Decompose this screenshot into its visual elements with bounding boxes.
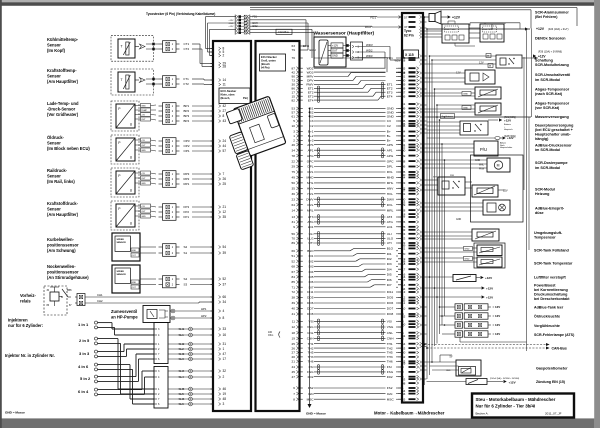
svg-text:48: 48 <box>223 397 227 401</box>
svg-text:im SCR-Modul: im SCR-Modul <box>535 166 560 170</box>
wire DO6 <box>314 302 386 304</box>
lamp SCR-Fehlerlampe (ATS) <box>455 331 463 337</box>
svg-text:SL3: SL3 <box>179 357 185 361</box>
svg-text:DWV: DWV <box>387 197 395 201</box>
svg-text:12V: 12V <box>503 188 508 192</box>
wire PowerBoost 12V 1 <box>427 287 482 289</box>
wire WD3| <box>314 71 386 73</box>
svg-text:2: 2 <box>223 375 225 379</box>
svg-text:SCR-Tank Füllstand: SCR-Tank Füllstand <box>534 248 570 252</box>
svg-text:20: 20 <box>292 355 296 359</box>
svg-text:+12V: +12V <box>536 27 545 31</box>
svg-text:SENSOR: SENSOR <box>117 242 127 244</box>
wire SL3 to pin 17 <box>168 358 213 360</box>
wire TH2 <box>314 347 386 349</box>
svg-text:17: 17 <box>223 357 227 361</box>
wires S2 S1 to pins 54 39 <box>190 246 213 248</box>
wire MRV| <box>314 76 348 78</box>
CAN-Bus wires <box>425 344 547 346</box>
wire IGN <box>314 393 386 395</box>
svg-text:Wassersensor (Hauptfilter): Wassersensor (Hauptfilter) <box>314 30 375 36</box>
svg-text:Kühlmitteltemp-: Kühlmitteltemp- <box>47 37 79 42</box>
wire DO7 <box>314 308 386 310</box>
svg-text:C2: C2 <box>310 124 314 128</box>
svg-text:SCR-Tank Temperatur: SCR-Tank Temperatur <box>534 261 573 265</box>
svg-text:GND: GND <box>141 150 146 152</box>
svg-text:Lade-Temp- und: Lade-Temp- und <box>47 101 79 106</box>
wires FP to pins 21 12 35 <box>192 206 213 208</box>
svg-text:DPL: DPL <box>307 165 313 169</box>
svg-text:S2: S2 <box>184 245 188 249</box>
svg-text:SCR-Dosierpumpe: SCR-Dosierpumpe <box>535 161 568 165</box>
sensor Umgebungsluft-Temp <box>472 229 499 241</box>
svg-text:(Bei Fehlern): (Bei Fehlern) <box>535 15 558 19</box>
svg-text:37: 37 <box>402 189 406 193</box>
svg-text:FP1: FP1 <box>184 215 190 219</box>
svg-text:85: 85 <box>292 280 296 284</box>
svg-text:FD2: FD2 <box>387 375 393 379</box>
connector WD <box>351 42 363 60</box>
ECU connector large box <box>256 41 300 411</box>
svg-text:1: 1 <box>293 134 295 138</box>
svg-text:an HP-Pumpe: an HP-Pumpe <box>111 315 138 320</box>
svg-text:51: 51 <box>402 102 406 106</box>
connector BP <box>163 103 177 125</box>
svg-text:+12V: +12V <box>504 118 511 122</box>
wire DI4 <box>314 271 362 273</box>
svg-text:ECU-Stecker: ECU-Stecker <box>221 89 237 93</box>
svg-text:AP1: AP1 <box>387 148 393 152</box>
svg-text:(Vor Gridheater): (Vor Gridheater) <box>47 112 79 117</box>
svg-text:AP1: AP1 <box>308 148 314 152</box>
svg-text:35: 35 <box>223 215 227 219</box>
svg-text:DI3: DI3 <box>387 262 392 266</box>
svg-text:Ohm: Ohm <box>268 334 273 337</box>
svg-text:48: 48 <box>402 381 406 385</box>
svg-text:(5V5xF [5A] + 3V/9N4 + 3V/9N4): (5V5xF [5A] + 3V/9N4 + 3V/9N4) <box>490 377 519 380</box>
svg-text:(Im Rail, links): (Im Rail, links) <box>47 179 75 184</box>
svg-text:BP4: BP4 <box>184 119 190 123</box>
wire SL1 to pin 16 <box>168 334 213 336</box>
svg-text:B1O: B1O <box>387 247 394 251</box>
svg-text:MRL: MRL <box>307 208 314 212</box>
svg-text:Zündung EIN (15): Zündung EIN (15) <box>536 380 565 384</box>
svg-text:5 in 2: 5 in 2 <box>80 376 91 381</box>
svg-text:CH1: CH1 <box>97 293 103 297</box>
svg-text:nur für 6 Zylinder:: nur für 6 Zylinder: <box>8 323 43 328</box>
wire LD1 <box>314 226 386 228</box>
svg-text:7: 7 <box>223 172 225 176</box>
svg-text:42: 42 <box>223 104 227 108</box>
wire SH4 to pin 32 <box>168 370 213 372</box>
svg-text:11: 11 <box>223 83 227 87</box>
svg-text:8: 8 <box>223 114 225 118</box>
svg-text:3 in 3: 3 in 3 <box>79 351 90 356</box>
lamp Vorglühleuchte <box>455 322 463 328</box>
svg-text:APS: APS <box>307 143 313 147</box>
wire 12V rail F24 <box>427 28 530 30</box>
svg-text:OP2: OP2 <box>184 144 190 148</box>
svg-text:DI6: DI6 <box>387 278 392 282</box>
switch Luftfilter verstopft <box>453 275 476 282</box>
svg-text:SL6: SL6 <box>179 402 185 406</box>
NOx sensor box 2 <box>480 24 504 42</box>
svg-text:SL5: SL5 <box>179 392 185 396</box>
wire injector 5 in 2 high <box>98 376 137 378</box>
svg-text:DVL: DVL <box>307 203 313 207</box>
svg-text:HVL: HVL <box>307 192 313 196</box>
svg-text:AdBlue-Drucksensor: AdBlue-Drucksensor <box>535 143 572 147</box>
wire RWV| <box>314 83 358 85</box>
svg-text:66: 66 <box>292 249 296 253</box>
sensor AdBlue-Druck P/U <box>474 141 498 156</box>
svg-text:(Am Hauptfilter): (Am Hauptfilter) <box>47 79 79 84</box>
svg-text:HNV: HNV <box>307 187 314 191</box>
svg-text:PKW: PKW <box>479 168 485 170</box>
wire DWV <box>314 198 386 200</box>
wire injector 4 in 6 low <box>98 368 133 370</box>
svg-text:53T: 53T <box>433 177 437 179</box>
svg-text:DO8: DO8 <box>307 312 314 316</box>
svg-text:FSG: FSG <box>387 370 394 374</box>
svg-text:T: T <box>121 45 123 49</box>
svg-text:CNH: CNH <box>387 337 394 341</box>
junction dots right bundle <box>424 16 426 18</box>
wire injector 6 in 4 high <box>98 389 143 391</box>
svg-text:Vorglühleuchte: Vorglühleuchte <box>534 324 560 328</box>
svg-text:42: 42 <box>292 70 296 74</box>
svg-text:TH3: TH3 <box>387 355 393 359</box>
wire MHL <box>314 182 386 184</box>
svg-text:WDV: WDV <box>366 43 373 47</box>
svg-text:34: 34 <box>292 148 296 152</box>
svg-text:B+: B+ <box>387 130 391 134</box>
svg-text:66: 66 <box>223 295 227 299</box>
svg-text:32: 32 <box>223 369 227 373</box>
svg-text:MSC: MSC <box>387 397 395 401</box>
svg-text:OUT: OUT <box>141 145 146 147</box>
svg-text:TH1: TH1 <box>387 342 393 346</box>
svg-text:9: 9 <box>293 225 295 229</box>
svg-text:UTI: UTI <box>387 241 392 245</box>
relay SCR-Modul Heizung <box>438 177 465 195</box>
svg-text:SCR-Fehlerlampe (ATS): SCR-Fehlerlampe (ATS) <box>534 333 575 337</box>
svg-text:RVL: RVL <box>387 170 393 174</box>
enclosure SCR-Tank sensors <box>474 243 505 268</box>
svg-text:= 12V: = 12V <box>493 323 501 327</box>
svg-text:MHD: MHD <box>387 176 395 180</box>
svg-text:Steu - Motorkabelbaum - Mähdre: Steu - Motorkabelbaum - Mähdrescher <box>476 397 556 402</box>
svg-text:ATG: ATG <box>387 220 394 224</box>
svg-text:TH5: TH5 <box>308 351 314 355</box>
wire top rail 1 <box>250 7 577 9</box>
wire DO8 <box>314 313 386 315</box>
svg-text:DI1: DI1 <box>387 252 392 256</box>
svg-text:Hauptsch.: Hauptsch. <box>504 128 513 131</box>
svg-text:BP1: BP1 <box>184 104 190 108</box>
svg-text:SCR-Alarmsummer: SCR-Alarmsummer <box>535 11 569 15</box>
connector X tyco 6pin <box>234 15 236 35</box>
svg-text:21: 21 <box>292 360 296 364</box>
wire PD1 row <box>314 57 386 59</box>
svg-text:TH1: TH1 <box>308 342 314 346</box>
svg-text:55: 55 <box>402 299 406 303</box>
wire B+3|B+ <box>314 139 386 141</box>
wire injector 1 in 1 low <box>98 326 115 328</box>
svg-text:Dauerplusversorgung: Dauerplusversorgung <box>535 123 573 127</box>
wire FT1 to pin 14 <box>192 78 204 80</box>
heater resistor SCR-Modul <box>472 185 498 197</box>
wire HVL <box>314 193 386 195</box>
svg-text:47: 47 <box>223 352 227 356</box>
wire FT2 to pin 11 <box>192 83 204 85</box>
svg-text:LD1: LD1 <box>387 225 393 229</box>
wires S4 S3 to pins 52 37 <box>190 278 213 280</box>
wire PowerBoost 12V 2 <box>427 296 482 298</box>
svg-text:C2: C2 <box>387 124 391 128</box>
svg-text:Tycostecker (6 Pin) (Verbindun: Tycostecker (6 Pin) (Verbindung Kabelbäu… <box>146 12 215 16</box>
svg-text:DI2: DI2 <box>387 257 392 261</box>
svg-text:Luftfilter verstopft: Luftfilter verstopft <box>534 275 567 279</box>
wire HP2 to pin 8 <box>174 317 213 319</box>
wire C3 <box>314 120 386 122</box>
svg-text:SH2: SH2 <box>179 342 185 346</box>
svg-text:24: 24 <box>223 139 227 143</box>
svg-text:SL1: SL1 <box>179 333 185 337</box>
svg-text:21: 21 <box>223 205 227 209</box>
svg-text:2011_07_JF: 2011_07_JF <box>545 412 562 416</box>
svg-text:PowerBoost: PowerBoost <box>534 283 556 287</box>
svg-text:= 12V: = 12V <box>493 332 501 336</box>
wire DI2 <box>314 260 356 262</box>
svg-text:72: 72 <box>292 290 296 294</box>
svg-text:Becher A.: Becher A. <box>476 412 489 416</box>
svg-text:TH2: TH2 <box>308 346 314 350</box>
svg-text:AdBlue-Tank leer: AdBlue-Tank leer <box>534 305 564 309</box>
svg-text:56: 56 <box>292 232 296 236</box>
svg-text:VSG: VSG <box>387 325 394 329</box>
svg-text:50: 50 <box>402 173 406 177</box>
svg-text:ECU-Stecker: ECU-Stecker <box>261 55 277 59</box>
svg-text:5V: 5V <box>450 356 453 359</box>
svg-text:P/U: P/U <box>480 147 487 152</box>
svg-text:64: 64 <box>292 203 296 207</box>
svg-text:SCR-Umschaltventil: SCR-Umschaltventil <box>535 73 570 77</box>
svg-text:VSG: VSG <box>307 325 314 329</box>
svg-text:SH6: SH6 <box>179 397 185 401</box>
svg-text:(Im Block neben ECU): (Im Block neben ECU) <box>47 146 90 151</box>
connector CH <box>77 294 85 306</box>
sensor SCR-Tank Fuellstand <box>477 245 502 256</box>
wire top rail 2 <box>250 9 531 11</box>
svg-text:X 115: X 115 <box>405 53 414 57</box>
svg-text:düse: düse <box>535 211 544 215</box>
wire B1O <box>314 250 350 252</box>
svg-text:(Bosch,: (Bosch, <box>221 96 231 100</box>
svg-text:39: 39 <box>292 301 296 305</box>
connector FP <box>163 204 177 221</box>
svg-text:75: 75 <box>292 170 296 174</box>
wire WD3 drop <box>363 57 388 59</box>
wire ATG <box>314 221 386 223</box>
svg-text:TH6: TH6 <box>308 360 314 364</box>
svg-text:36: 36 <box>292 192 296 196</box>
wire 12V right rail down <box>526 29 528 351</box>
svg-text:8: 8 <box>293 397 295 401</box>
svg-text:ECH: ECH <box>310 48 316 52</box>
svg-text:RVL: RVL <box>308 170 314 174</box>
svg-text:(F24 (10A) + R+T): (F24 (10A) + R+T) <box>548 28 569 31</box>
svg-text:Aux Antenne: Aux Antenne <box>442 115 454 118</box>
svg-text:= 12V: = 12V <box>493 314 501 318</box>
svg-text:MHL: MHL <box>307 181 314 185</box>
svg-text:bei Kornentleerung: bei Kornentleerung <box>534 288 568 292</box>
svg-text:HVL: HVL <box>387 192 393 196</box>
svg-text:59: 59 <box>402 244 406 248</box>
svg-text:GND: GND <box>465 259 470 261</box>
wire RVL <box>314 171 386 173</box>
svg-text:23: 23 <box>292 197 296 201</box>
svg-text:62 Pin: 62 Pin <box>404 34 414 38</box>
wire F28 12V row <box>427 137 496 139</box>
svg-text:DI11: DI11 <box>387 290 394 294</box>
svg-text:FD1: FD1 <box>370 15 376 19</box>
svg-text:57: 57 <box>223 149 227 153</box>
svg-text:45: 45 <box>292 370 296 374</box>
wire DO2 to X115 pin 37 <box>250 25 372 27</box>
svg-text:S3: S3 <box>184 283 188 287</box>
svg-text:C3: C3 <box>310 119 314 123</box>
svg-text:19: 19 <box>292 337 296 341</box>
wire top connector to ECU pin 8 <box>206 16 237 18</box>
svg-text:28: 28 <box>223 65 227 69</box>
svg-text:HP1: HP1 <box>201 307 207 311</box>
svg-text:3: 3 <box>293 130 295 134</box>
wire SL4 to pin 2 <box>168 376 213 378</box>
wire injector 2 in 5 high <box>98 338 119 340</box>
relay Dauerplusversorgung <box>460 121 488 135</box>
svg-text:44: 44 <box>223 144 227 148</box>
svg-text:31: 31 <box>292 220 296 224</box>
wire injector 6 in 4 low <box>98 393 145 395</box>
wire ET1 <box>314 87 363 89</box>
svg-text:70: 70 <box>292 237 296 241</box>
svg-text:6: 6 <box>293 386 295 390</box>
svg-text:AT3: AT3 <box>308 215 314 219</box>
wire SH2 to pin 31 <box>168 343 213 345</box>
svg-text:FS2: FS2 <box>308 386 314 390</box>
wires NOx boxes <box>427 30 443 32</box>
svg-text:54: 54 <box>223 245 227 249</box>
svg-text:Sensor: Sensor <box>47 43 61 48</box>
svg-text:Sensor: Sensor <box>47 207 61 212</box>
svg-text:DPL: DPL <box>387 165 393 169</box>
wire OPC <box>314 160 386 162</box>
svg-text:8: 8 <box>223 316 225 320</box>
svg-text:GND = Masse: GND = Masse <box>306 411 326 415</box>
wire DVL <box>314 204 386 206</box>
relay Schaltung SCR-Modulheizung <box>496 55 522 68</box>
svg-text:B1O: B1O <box>307 249 314 253</box>
NOx sensor box 1 <box>442 24 469 43</box>
svg-text:(F26 (10A) + 3V/9N6): (F26 (10A) + 3V/9N6) <box>538 51 562 54</box>
svg-text:LD1: LD1 <box>308 225 314 229</box>
svg-text:SL2: SL2 <box>179 347 185 351</box>
svg-text:RP3: RP3 <box>184 172 190 176</box>
big SCR-Modul enclosure <box>471 155 524 222</box>
svg-text:12: 12 <box>223 210 227 214</box>
svg-text:TH3: TH3 <box>308 355 314 359</box>
svg-text:Öldruckleuchte: Öldruckleuchte <box>534 314 560 319</box>
wire FD2 <box>314 376 386 378</box>
svg-text:BP2: BP2 <box>184 109 190 113</box>
svg-text:(Im Kopf): (Im Kopf) <box>47 48 66 53</box>
svg-text:Sensor: Sensor <box>47 141 61 146</box>
svg-text:31: 31 <box>223 342 227 346</box>
svg-text:APG: APG <box>387 154 394 158</box>
svg-text:38: 38 <box>292 296 296 300</box>
svg-text:relais: relais <box>20 299 31 304</box>
svg-text:SH3: SH3 <box>179 352 185 356</box>
svg-text:1: 1 <box>223 347 225 351</box>
svg-text:Zumessventil: Zumessventil <box>111 309 137 314</box>
svg-text:TEMP: TEMP <box>141 110 147 112</box>
svg-text:35: 35 <box>292 187 296 191</box>
svg-text:78: 78 <box>292 154 296 158</box>
svg-text:+12V: +12V <box>486 295 493 299</box>
wire WDV to X115 pin 28 <box>363 46 391 48</box>
svg-text:47: 47 <box>292 375 296 379</box>
svg-text:hängig): hängig) <box>535 137 549 141</box>
svg-text:1 in 1: 1 in 1 <box>78 322 89 327</box>
svg-text:DO6: DO6 <box>387 301 394 305</box>
svg-text:4 in 6: 4 in 6 <box>78 364 89 369</box>
svg-text:GND: GND <box>132 282 137 284</box>
svg-text:+12V: +12V <box>486 286 493 290</box>
svg-text:32: 32 <box>402 315 406 319</box>
svg-text:DO6: DO6 <box>307 301 314 305</box>
svg-text:46: 46 <box>292 143 296 147</box>
wire injector 4 in 6 high <box>98 364 131 366</box>
wire MRL <box>314 209 386 211</box>
wire UTI <box>314 242 386 244</box>
svg-text:Hauptschalter unab-: Hauptschalter unab- <box>535 133 571 137</box>
svg-text:Umgebungsluft-: Umgebungsluft- <box>534 231 563 235</box>
svg-text:3: 3 <box>223 402 225 406</box>
svg-text:2: 2 <box>223 54 225 58</box>
buzzer SCR-Alarmsummer <box>427 16 430 18</box>
svg-text:Klein, oben: Klein, oben <box>221 92 235 96</box>
svg-text:VSI: VSI <box>387 320 392 324</box>
wire VSG <box>314 326 386 328</box>
svg-text:26: 26 <box>223 177 227 181</box>
svg-text:BP3: BP3 <box>184 114 190 118</box>
wires BP to pins 42 27 8 43 <box>192 105 213 107</box>
wire TH1 <box>314 343 386 345</box>
svg-text:Raildruck-: Raildruck- <box>47 168 68 173</box>
wire TH3 <box>314 356 386 358</box>
svg-text:Motor←Kabelbaum→Mähdrescher: Motor←Kabelbaum→Mähdrescher <box>374 410 445 415</box>
svg-text:33: 33 <box>223 327 227 331</box>
wire NOx supply over-rail <box>470 22 520 24</box>
label CAN-Bus small box <box>276 29 292 34</box>
wire FSG <box>314 371 386 373</box>
svg-text:Tyco: Tyco <box>404 29 411 33</box>
svg-text:IGN: IGN <box>308 392 314 396</box>
wire APS <box>314 144 386 146</box>
wire FD1 to X115 pin 57 <box>250 16 377 18</box>
svg-text:19: 19 <box>223 392 227 396</box>
